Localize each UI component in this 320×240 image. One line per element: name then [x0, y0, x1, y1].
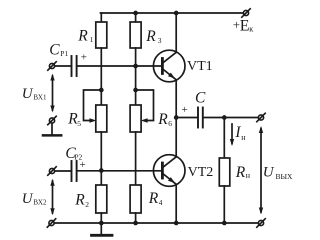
wire top rail [101, 12, 244, 14]
resistor R6 [130, 105, 141, 132]
node dot top rail R3 [133, 11, 138, 16]
wire col1 R1 bottom to R5 [100, 48, 102, 105]
resistor RH [219, 158, 230, 186]
node dot R6 wiper col2 [133, 88, 138, 93]
ground below R2 on bottom rail [92, 223, 113, 235]
svg-text:R: R [235, 164, 246, 181]
wiper arrowhead R5 [90, 118, 97, 122]
node dot bottom rail R2 [99, 221, 104, 226]
svg-text:U: U [263, 165, 275, 181]
wire col2 R4 bottom lead [135, 213, 137, 223]
svg-text:VT1: VT1 [187, 59, 213, 74]
terminal input2 top [48, 167, 56, 175]
wire col1 R1 top lead [100, 13, 102, 22]
wire VT2 collector lead [175, 118, 177, 157]
svg-text:P1: P1 [60, 49, 68, 58]
wiper arrowhead R6 [141, 118, 148, 122]
wire VT1 collector lead [175, 13, 177, 52]
arrow UBX2 [50, 179, 54, 216]
svg-text:1: 1 [90, 35, 94, 44]
wire RH node to output terminal [224, 117, 258, 119]
capacitor CP1 [72, 56, 77, 76]
wire input2 to capacitor CP2 [55, 170, 71, 172]
svg-text:R: R [74, 191, 85, 208]
wire col2 R6 bottom to R4 [135, 132, 137, 185]
resistor R5 [96, 105, 107, 132]
wire RH top lead [223, 118, 225, 159]
svg-text:R: R [148, 190, 159, 207]
svg-text:4: 4 [159, 198, 163, 207]
terminal input1 bottom [48, 116, 56, 124]
wire col2 R3 bottom to R6 [135, 48, 137, 105]
wire bottom rail [54, 222, 258, 224]
resistor R3 [130, 22, 141, 48]
wire input1 to capacitor CP1 [55, 65, 71, 67]
capacitor C [198, 108, 203, 128]
resistor R4 [130, 185, 141, 213]
node dot RH top [222, 115, 227, 120]
wire capacitor C to RH node [204, 117, 224, 119]
node dot bottom rail VT2 emitter [174, 221, 179, 226]
wire R6 wiper bracket [136, 90, 154, 121]
wire col1 R2 bottom lead [100, 213, 102, 223]
svg-text:R: R [157, 111, 168, 128]
terminal input2 bottom [47, 219, 55, 227]
svg-text:+: + [81, 52, 87, 64]
wire col2 R3 top lead [135, 13, 137, 22]
svg-text:C: C [195, 90, 206, 107]
svg-text:E: E [240, 18, 250, 35]
node dot bottom rail R4 [133, 221, 138, 226]
svg-text:R: R [145, 28, 156, 45]
node dot VT2 base col1 [99, 168, 104, 173]
resistor R2 [96, 185, 107, 213]
svg-text:3: 3 [158, 36, 162, 45]
svg-text:2: 2 [85, 200, 89, 209]
wire CP1 to VT1 base [78, 65, 161, 67]
terminal input1 top [48, 62, 56, 70]
wire VT1 emitter to output node [175, 80, 177, 118]
transistor VT2 [153, 155, 185, 187]
svg-text:ВХ1: ВХ1 [33, 93, 47, 101]
svg-text:н: н [241, 133, 246, 142]
arrow UVYH [259, 126, 263, 215]
node dot bottom rail RH [222, 221, 227, 226]
resistor R1 [96, 22, 107, 48]
arrow UBX1 [50, 74, 54, 113]
node dot R5 wiper col1 [99, 88, 104, 93]
svg-text:ВХ2: ВХ2 [33, 199, 47, 207]
svg-text:U: U [22, 86, 34, 102]
capacitor CP2 [72, 161, 77, 181]
svg-text:5: 5 [77, 119, 81, 128]
terminal output bottom [257, 219, 265, 227]
node dot top rail VT1 collector [174, 11, 179, 16]
svg-text:R: R [77, 27, 88, 44]
wire col1 R5 bottom to R2 [100, 132, 102, 185]
svg-text:н: н [246, 171, 251, 180]
terminal +Ek [242, 9, 250, 17]
wire RH bottom lead [223, 186, 225, 223]
node dot output [174, 115, 179, 120]
svg-text:6: 6 [168, 119, 172, 128]
ground below input1 lower terminal [43, 124, 61, 136]
terminal output top [257, 113, 265, 121]
svg-text:C: C [49, 42, 60, 59]
svg-text:ВЫХ: ВЫХ [276, 172, 294, 181]
svg-text:VT2: VT2 [188, 165, 214, 180]
transistor VT1 [153, 50, 185, 82]
wire VT2 emitter to bottom rail [175, 184, 177, 223]
svg-text:+: + [182, 104, 188, 116]
svg-text:к: к [249, 25, 253, 34]
wire output node to capacitor C [176, 117, 197, 119]
svg-text:+: + [80, 159, 86, 171]
wire R5 wiper bracket [84, 90, 102, 121]
wire CP2 to VT2 base [78, 170, 161, 172]
svg-text:U: U [22, 191, 34, 207]
arrow IH load current [230, 124, 234, 146]
node dot VT1 base col2 [133, 64, 138, 69]
